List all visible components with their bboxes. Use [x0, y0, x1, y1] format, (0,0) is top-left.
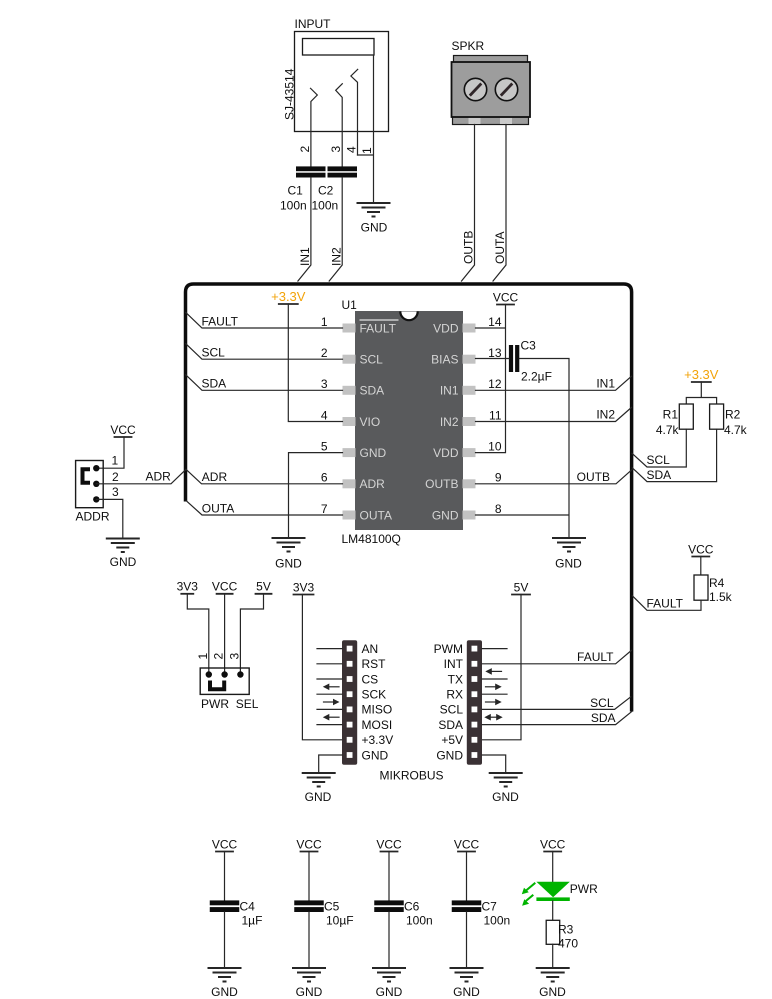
svg-text:TX: TX: [448, 672, 463, 686]
svg-text:RX: RX: [446, 688, 463, 702]
wire mikrobus right GND: [482, 755, 506, 772]
svg-text:6: 6: [321, 471, 328, 485]
svg-text:R1: R1: [663, 407, 679, 421]
svg-text:2.2µF: 2.2µF: [521, 370, 552, 384]
svg-text:GND: GND: [453, 985, 480, 999]
svg-text:4: 4: [344, 146, 358, 153]
svg-text:3: 3: [112, 485, 119, 499]
svg-text:2: 2: [212, 653, 226, 660]
svg-text:OUTB: OUTB: [425, 477, 458, 491]
wire C2 to border net IN2: [329, 178, 343, 282]
svg-text:SEL: SEL: [236, 697, 259, 711]
svg-text:OUTB: OUTB: [462, 231, 476, 264]
IC U1 right pin 14 stub (VDD): [463, 324, 476, 333]
svg-text:C3: C3: [521, 339, 537, 353]
svg-text:1: 1: [360, 147, 374, 154]
PWR SEL jumper bracket: [210, 681, 224, 690]
svg-text:IN2: IN2: [329, 247, 343, 266]
jack switch contact pin 4: [351, 69, 358, 155]
PWR label: [570, 882, 598, 896]
svg-text:100n: 100n: [484, 914, 511, 928]
ground under C6: [372, 968, 406, 982]
IC U1 right pin 8 stub (GND): [463, 511, 476, 520]
wire 5V to mikrobus +5V pin: [482, 595, 521, 740]
svg-text:FAULT: FAULT: [360, 321, 397, 335]
wire pin3 SDA to border: [186, 375, 343, 391]
svg-text:4.7k: 4.7k: [656, 423, 680, 437]
mikrobus right header body: [467, 640, 482, 765]
ground under C5: [292, 968, 326, 982]
svg-text:5: 5: [321, 439, 328, 453]
svg-text:U1: U1: [342, 298, 358, 312]
IC U1 right pin 11 stub (IN2): [463, 417, 476, 426]
IC U1 left pin 1 stub (FAULT): [343, 324, 356, 333]
svg-text:10: 10: [488, 439, 502, 453]
capacitor C1: [280, 166, 326, 212]
power flag VCC over C5: [296, 837, 322, 851]
svg-text:1.5k: 1.5k: [709, 590, 733, 604]
svg-text:2: 2: [112, 470, 119, 484]
svg-text:7: 7: [321, 502, 328, 516]
svg-text:GND: GND: [275, 557, 302, 571]
svg-text:VCC: VCC: [212, 580, 238, 594]
power flag VCC over ADDR: [110, 423, 136, 437]
svg-text:100n: 100n: [312, 199, 339, 213]
capacitor C3: [509, 339, 552, 384]
svg-text:SDA: SDA: [591, 711, 616, 725]
svg-text:VCC: VCC: [212, 837, 238, 851]
resistor R4: [694, 557, 733, 605]
svg-text:OUTA: OUTA: [360, 508, 392, 522]
resistor R3: [546, 901, 578, 967]
svg-text:IN1: IN1: [298, 247, 312, 266]
svg-text:C4: C4: [240, 900, 256, 914]
svg-text:9: 9: [495, 471, 502, 485]
wire 3V3 to mikrobus +3.3V pin: [302, 595, 342, 740]
ground mikrobus left: [302, 773, 336, 787]
terminal block SPKR body: [452, 56, 531, 125]
svg-text:3: 3: [329, 146, 343, 153]
svg-text:C2: C2: [318, 184, 334, 198]
power flag 3V3 pwrsel: [177, 580, 199, 594]
PWR SEL pin 1 dot: [206, 671, 212, 677]
PWR SEL pin number 3: [227, 653, 241, 660]
svg-text:2: 2: [321, 346, 328, 360]
svg-text:SDA: SDA: [647, 468, 672, 482]
GND label under jack: [361, 221, 388, 235]
jack pin number 3: [329, 146, 343, 153]
svg-text:PWR: PWR: [201, 697, 229, 711]
wire SPKR pin to border net OUTA: [493, 125, 507, 282]
svg-text:SCL: SCL: [440, 703, 464, 717]
op-amp IC U1 designator: [342, 298, 358, 312]
GND label under C7: [453, 985, 480, 999]
svg-text:VCC: VCC: [540, 837, 566, 851]
power flag VCC over C4: [212, 837, 238, 851]
svg-text:IN2: IN2: [440, 415, 459, 429]
svg-text:3: 3: [227, 653, 241, 660]
svg-text:MIKROBUS: MIKROBUS: [380, 769, 444, 783]
PWR SEL pin 3 dot: [237, 671, 243, 677]
svg-text:INPUT: INPUT: [295, 17, 332, 31]
connector PWR SEL body: [200, 668, 249, 694]
resistor R1: [656, 404, 693, 437]
wire mikrobus SCL to border: [482, 696, 631, 710]
ground under IC left: [272, 538, 306, 552]
svg-text:GND: GND: [492, 790, 519, 804]
svg-text:1: 1: [112, 454, 119, 468]
resistor R2: [710, 404, 748, 437]
svg-text:SDA: SDA: [360, 384, 385, 398]
IC U1 left pin 2 stub (SCL): [343, 355, 356, 364]
PWR SEL pin 2 dot: [221, 671, 227, 677]
svg-text:1: 1: [321, 315, 328, 329]
power flag 5V mikrobus: [512, 580, 530, 594]
wire mikrobus left GND: [319, 755, 342, 772]
arrow right in: [485, 668, 501, 675]
svg-text:VCC: VCC: [688, 542, 714, 556]
svg-text:OUTA: OUTA: [202, 501, 234, 515]
mikrobus left header body: [342, 640, 357, 765]
svg-text:14: 14: [488, 315, 502, 329]
svg-text:MOSI: MOSI: [362, 718, 393, 732]
svg-text:IN1: IN1: [596, 376, 615, 390]
svg-text:ADR: ADR: [360, 477, 386, 491]
wire +3.3V to pin4 VIO: [288, 304, 342, 422]
power flag VCC over R4: [688, 542, 714, 556]
svg-text:VCC: VCC: [110, 423, 136, 437]
svg-text:VIO: VIO: [360, 415, 381, 429]
svg-text:AN: AN: [362, 642, 379, 656]
svg-text:8: 8: [495, 502, 502, 516]
svg-text:11: 11: [489, 408, 502, 422]
arrow right out 2: [486, 699, 502, 706]
capacitor C6: [374, 852, 432, 968]
arrow right bidir: [484, 714, 502, 721]
svg-text:FAULT: FAULT: [577, 650, 614, 664]
wire VCC to PWRSEL pin2: [224, 594, 226, 675]
svg-text:VCC: VCC: [493, 290, 519, 304]
svg-text:GND: GND: [211, 985, 238, 999]
mikrobus right header pin labels: [434, 642, 464, 762]
GND label under C3: [555, 557, 582, 571]
svg-text:SPKR: SPKR: [452, 39, 485, 53]
IC U1 inner pin names left: [360, 320, 399, 522]
ground under ADDR: [106, 539, 140, 553]
svg-text:1: 1: [196, 653, 210, 660]
svg-text:100n: 100n: [280, 199, 307, 213]
svg-text:GND: GND: [360, 446, 387, 460]
svg-text:FAULT: FAULT: [202, 314, 239, 328]
jack pin number 4: [344, 146, 358, 153]
ground mikrobus right: [489, 773, 523, 787]
wire pin5 GND down: [289, 453, 343, 537]
mikrobus left header pin labels: [362, 642, 394, 762]
ADDR pin 3 dot: [93, 496, 99, 502]
wire pin13 BIAS to C3: [476, 358, 509, 360]
wire mikrobus SDA to border: [482, 711, 632, 725]
capacitor C5: [294, 852, 353, 968]
svg-text:+3.3V: +3.3V: [684, 367, 719, 382]
jack switch contact pin 3: [336, 84, 343, 167]
svg-text:SCL: SCL: [647, 453, 671, 467]
LED D1 PWR: [536, 852, 569, 902]
GND label under C4: [211, 985, 238, 999]
MIKROBUS label: [380, 769, 444, 783]
power flag VCC over IC: [493, 290, 519, 304]
wire ADDR pin3 to ground: [96, 485, 123, 537]
wire 5V to PWRSEL pin3: [240, 594, 263, 675]
audio jack J1 body: [295, 32, 389, 132]
IC U1 right pin 10 stub (VDD): [463, 448, 476, 457]
wire R1 to border net SCL: [632, 429, 686, 467]
connector ADDR body: [76, 461, 104, 508]
jack switch contact pin 2: [311, 88, 318, 166]
arrow right out: [486, 684, 502, 691]
ground under jack: [357, 203, 391, 217]
svg-text:470: 470: [558, 937, 578, 951]
svg-text:INT: INT: [444, 657, 464, 671]
terminal screw 1: [464, 78, 486, 100]
svg-text:GND: GND: [296, 985, 323, 999]
svg-text:VDD: VDD: [433, 446, 459, 460]
IC U1 left pin 3 stub (SDA): [343, 386, 356, 395]
wire +3.3V rail to R1 R2: [686, 382, 716, 404]
svg-text:R4: R4: [709, 576, 725, 590]
svg-text:SCL: SCL: [202, 346, 226, 360]
svg-text:VCC: VCC: [454, 837, 480, 851]
wire pin1 FAULT to border: [186, 313, 343, 329]
svg-text:C7: C7: [482, 900, 498, 914]
wire VCC to pin14 and pin10 VDD: [476, 305, 506, 453]
wire SPKR pin to border net OUTB: [462, 125, 476, 282]
IC U1 left pin 5 stub (GND): [343, 448, 356, 457]
ground under R3: [536, 968, 570, 982]
IC U1 left pin numbers: [321, 315, 328, 516]
svg-text:VCC: VCC: [296, 837, 322, 851]
svg-text:3V3: 3V3: [177, 580, 199, 594]
arrow left in: [323, 684, 339, 691]
svg-text:R2: R2: [725, 407, 741, 421]
svg-text:PWM: PWM: [434, 642, 463, 656]
svg-text:GND: GND: [305, 790, 332, 804]
jack sleeve pin 1 wire: [358, 55, 374, 202]
svg-text:5V: 5V: [514, 580, 529, 594]
svg-text:+5V: +5V: [441, 733, 463, 747]
wire R4 to border net FAULT: [632, 596, 701, 611]
arrow left out: [324, 699, 340, 706]
PWR SEL pin number 2: [212, 653, 226, 660]
svg-text:GND: GND: [110, 555, 137, 569]
power flag +3.3V left: [271, 289, 306, 304]
svg-text:C6: C6: [404, 900, 420, 914]
svg-text:VDD: VDD: [433, 321, 459, 335]
ADDR pin 1 dot: [93, 465, 99, 471]
svg-text:3: 3: [321, 377, 328, 391]
terminal block SPKR label: [452, 39, 485, 53]
svg-text:2: 2: [298, 146, 312, 153]
wire pin2 SCL to border: [186, 344, 343, 360]
PWR SEL label: [201, 697, 259, 711]
svg-text:1µF: 1µF: [242, 914, 263, 928]
svg-text:SCL: SCL: [590, 696, 614, 710]
ground under C4: [208, 968, 242, 982]
svg-text:IN2: IN2: [596, 408, 615, 422]
IC U1 inner pin names right: [425, 321, 459, 522]
svg-text:GND: GND: [362, 748, 389, 762]
wire pin11 IN2 to border: [476, 407, 632, 421]
IC U1 body: [355, 311, 463, 530]
svg-text:GND: GND: [432, 508, 459, 522]
power flag 5V pwrsel: [256, 580, 272, 594]
svg-text:SCK: SCK: [362, 688, 387, 702]
wire VCC to ADDR pin1: [96, 437, 124, 468]
mikrobus right stub wires: [482, 649, 507, 695]
capacitor C4: [210, 852, 263, 968]
svg-text:GND: GND: [539, 985, 566, 999]
arrow left in 2: [323, 714, 339, 721]
IC U1 right pin numbers: [488, 315, 502, 516]
svg-text:GND: GND: [436, 748, 463, 762]
svg-text:IN1: IN1: [440, 384, 459, 398]
svg-text:SDA: SDA: [438, 718, 463, 732]
svg-text:4: 4: [321, 408, 328, 422]
IC U1 right pin 13 stub (BIAS): [463, 355, 476, 364]
wire ADDR pin2 to border net ADR: [96, 469, 186, 484]
svg-text:SDA: SDA: [202, 377, 227, 391]
terminal screw 2: [495, 78, 517, 100]
svg-text:BIAS: BIAS: [431, 353, 458, 367]
jack pin number 2: [298, 146, 312, 153]
GND label under ADDR: [110, 555, 137, 569]
GND label under IC left: [275, 557, 302, 571]
wire pin6 ADR to border: [186, 469, 343, 483]
LED light arrows: [522, 883, 536, 906]
ground under C7: [450, 968, 484, 982]
wire pin7 OUTA to border: [186, 501, 342, 516]
power flag VCC over LED: [540, 837, 566, 851]
power flag VCC over C6: [376, 837, 402, 851]
ground under C3: [552, 538, 586, 552]
svg-text:SJ-43514: SJ-43514: [283, 68, 297, 120]
capacitor C2: [312, 166, 358, 212]
wire pin12 IN1 to border: [476, 376, 632, 390]
svg-text:ADR: ADR: [146, 469, 172, 483]
ADDR label: [76, 510, 110, 524]
power flag +3.3V right: [684, 367, 719, 382]
capacitor C7: [452, 852, 510, 968]
wire mikrobus INT to border net FAULT: [482, 650, 631, 664]
svg-text:VCC: VCC: [376, 837, 402, 851]
svg-text:OUTB: OUTB: [577, 470, 610, 484]
svg-text:FAULT: FAULT: [647, 596, 684, 610]
GND label under C6: [376, 985, 403, 999]
IC U1 part number: [342, 532, 401, 546]
wire pin9 OUTB to border: [476, 470, 633, 484]
svg-text:GND: GND: [555, 557, 582, 571]
svg-text:10µF: 10µF: [326, 914, 354, 928]
PWR SEL pin number 1: [196, 653, 210, 660]
GND label mikrobus left: [305, 790, 332, 804]
mikrobus left stub wires: [317, 649, 342, 725]
power flag VCC pwrsel: [212, 580, 238, 594]
svg-text:GND: GND: [376, 985, 403, 999]
IC U1 left pin 7 stub (OUTA): [343, 511, 356, 520]
svg-text:GND: GND: [361, 221, 388, 235]
svg-text:C1: C1: [288, 184, 304, 198]
svg-text:LM48100Q: LM48100Q: [342, 532, 401, 546]
svg-text:R3: R3: [558, 923, 574, 937]
svg-text:ADR: ADR: [202, 470, 228, 484]
IC U1 right pin 12 stub (IN1): [463, 386, 476, 395]
svg-text:PWR: PWR: [570, 882, 598, 896]
IC U1 left pin 4 stub (VIO): [343, 417, 356, 426]
svg-text:MISO: MISO: [362, 703, 393, 717]
svg-text:RST: RST: [362, 657, 387, 671]
wire C1 to border net IN1: [298, 178, 312, 282]
svg-text:12: 12: [488, 377, 502, 391]
audio jack J1 part number SJ-43514: [283, 68, 297, 120]
power flag 3V3 mikrobus: [293, 580, 315, 594]
svg-text:3V3: 3V3: [293, 580, 315, 594]
wire R2 to border net SDA: [632, 429, 716, 482]
svg-text:OUTA: OUTA: [493, 232, 507, 264]
svg-text:ADDR: ADDR: [76, 510, 110, 524]
power flag VCC over C7: [454, 837, 480, 851]
svg-text:SCL: SCL: [360, 353, 384, 367]
wire C3 to ground / pin8: [476, 359, 570, 537]
ADDR pin 2 dot: [93, 481, 99, 487]
wire 3V3 to PWRSEL pin1: [187, 594, 209, 675]
GND label under C5: [296, 985, 323, 999]
svg-text:5V: 5V: [256, 580, 271, 594]
svg-text:+3.3V: +3.3V: [362, 733, 394, 747]
IC U1 right pin 9 stub (OUTB): [463, 479, 476, 488]
svg-text:C5: C5: [324, 900, 340, 914]
jack pin number 1: [360, 147, 374, 154]
GND label under R3: [539, 985, 566, 999]
svg-text:100n: 100n: [406, 914, 433, 928]
schematic room border: [186, 284, 632, 712]
svg-text:CS: CS: [362, 672, 379, 686]
audio jack J1 INPUT label: [295, 17, 332, 31]
GND label mikrobus right: [492, 790, 519, 804]
IC U1 left pin 6 stub (ADR): [343, 479, 356, 488]
svg-text:4.7k: 4.7k: [724, 423, 748, 437]
svg-text:+3.3V: +3.3V: [271, 289, 306, 304]
